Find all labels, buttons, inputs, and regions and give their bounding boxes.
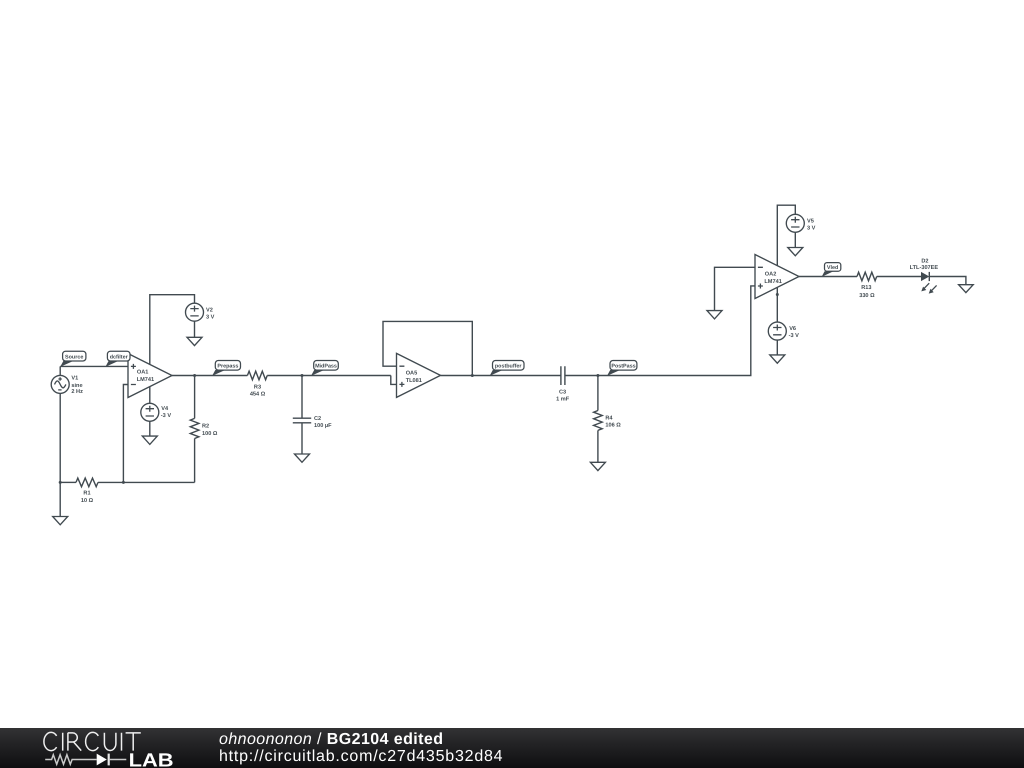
svg-text:LM741: LM741 [137, 377, 154, 383]
junction node at OA2 V- [776, 293, 779, 296]
junction node feedback/output [471, 374, 474, 377]
svg-text:LAB: LAB [129, 750, 174, 768]
svg-text:100 µF: 100 µF [314, 423, 332, 429]
wire OA1 output to R3 [172, 375, 247, 377]
svg-text:10 Ω: 10 Ω [81, 498, 94, 504]
ground under V4 [142, 436, 157, 444]
svg-text:R3: R3 [254, 384, 261, 390]
voltage source V2 3V [186, 303, 215, 337]
voltage source V6 -3V [768, 322, 799, 355]
svg-text:Prepass: Prepass [217, 364, 238, 370]
wire OA5 feedback loop [383, 321, 472, 375]
CircuitLab logo [0, 728, 200, 768]
wire OA5 + input jog [391, 376, 397, 385]
svg-text:OA2: OA2 [765, 272, 777, 278]
svg-text:1 mF: 1 mF [556, 397, 570, 403]
footer bar [0, 728, 1024, 768]
svg-text:454 Ω: 454 Ω [250, 392, 266, 398]
svg-text:3 V: 3 V [206, 314, 215, 320]
flag PostPass [607, 361, 637, 376]
svg-text:-3 V: -3 V [789, 333, 800, 339]
svg-text:OA5: OA5 [406, 371, 418, 377]
svg-text:330 Ω: 330 Ω [859, 293, 875, 299]
svg-text:LM741: LM741 [764, 279, 781, 285]
svg-text:R2: R2 [202, 423, 209, 429]
svg-text:R1: R1 [83, 491, 90, 497]
svg-text:100 Ω: 100 Ω [202, 431, 218, 437]
voltage source V5 3V [786, 214, 815, 247]
ground under V2 [187, 337, 202, 345]
svg-text:V2: V2 [206, 307, 213, 313]
svg-text:V4: V4 [161, 406, 169, 412]
wire D2 to ground [929, 277, 966, 285]
svg-text:3 V: 3 V [807, 226, 816, 232]
wire OA1 V- to V4 [149, 386, 151, 403]
flag MidPass [311, 361, 338, 376]
wire C3 to OA2 + input [565, 286, 755, 376]
junction node V1/R1 [59, 481, 62, 484]
svg-text:PostPass: PostPass [611, 364, 635, 370]
svg-text:2 Hz: 2 Hz [71, 389, 83, 395]
svg-text:dcfilter: dcfilter [110, 354, 129, 360]
svg-text:TL081: TL081 [406, 378, 422, 384]
wire bottom rail left segment [60, 481, 76, 483]
junction node C2 top [301, 374, 304, 377]
wire R13 to D2 [877, 276, 921, 278]
wire OA2 V+ to V5 [777, 205, 795, 266]
wire OA5 output [441, 375, 561, 377]
ground at OA2 - input [707, 311, 722, 319]
svg-text:Source: Source [65, 354, 83, 360]
svg-text:R4: R4 [605, 415, 613, 421]
resistor R13 330 ohm [857, 272, 877, 299]
capacitor C2 100uF [293, 376, 332, 455]
flag Vled [822, 263, 841, 277]
wire Source node to OA1 + input [60, 365, 128, 367]
ground at output [959, 285, 974, 293]
ground under R4 [590, 462, 605, 470]
svg-text:postbuffer: postbuffer [495, 364, 523, 370]
svg-text:Vled: Vled [827, 265, 838, 271]
junction node R4 top [596, 374, 599, 377]
op-amp OA2 LM741 [755, 255, 799, 299]
wire inverting input riser [123, 385, 128, 483]
flag postbuffer [490, 361, 524, 376]
junction node feedback/R1 [122, 481, 125, 484]
junction node R2 top [193, 374, 196, 377]
resistor R1 10 ohm [76, 478, 98, 504]
wire OA2 - input to ground [715, 267, 756, 310]
ground under V5 [788, 248, 803, 256]
wire bottom rail right segment [98, 481, 195, 483]
svg-text:LTL-307EE: LTL-307EE [910, 265, 939, 271]
footer attribution text [219, 731, 443, 749]
voltage source V4 -3V [141, 403, 172, 436]
voltage source V1 sine 2 Hz [51, 366, 83, 482]
svg-text:C2: C2 [314, 416, 321, 422]
svg-text:OA1: OA1 [137, 370, 149, 376]
wire OA2 output to R13 [799, 276, 857, 278]
resistor R3 454 ohm [247, 371, 267, 398]
resistor R2 100 ohm [190, 376, 218, 483]
wire OA2 V- to V6 [776, 287, 778, 322]
flag dcfilter [105, 351, 130, 367]
svg-text:106 Ω: 106 Ω [605, 423, 621, 429]
svg-text:D2: D2 [921, 259, 928, 265]
flag Source [60, 351, 86, 367]
resistor R4 106 ohm [594, 376, 622, 463]
wire OA1 V+ to V2 [150, 295, 195, 365]
svg-text:MidPass: MidPass [315, 364, 337, 370]
flag Prepass [212, 361, 240, 376]
ground bottom-left [53, 517, 68, 525]
ground under V6 [770, 355, 785, 363]
svg-text:C3: C3 [559, 389, 566, 395]
LED D2 LTL-307EE [910, 259, 939, 294]
ground under C2 [295, 454, 310, 462]
op-amp OA5 TL081 [397, 353, 441, 397]
capacitor C3 1mF [556, 366, 570, 402]
op-amp OA1 LM741 [128, 354, 172, 398]
svg-text:V1: V1 [71, 376, 78, 382]
wire R3 to OA5 input jog [267, 375, 391, 377]
svg-text:R13: R13 [861, 285, 871, 291]
svg-text:V6: V6 [789, 326, 796, 332]
svg-text:-3 V: -3 V [161, 413, 172, 419]
wire V1 to ground [59, 482, 61, 516]
svg-text:V5: V5 [807, 219, 814, 225]
